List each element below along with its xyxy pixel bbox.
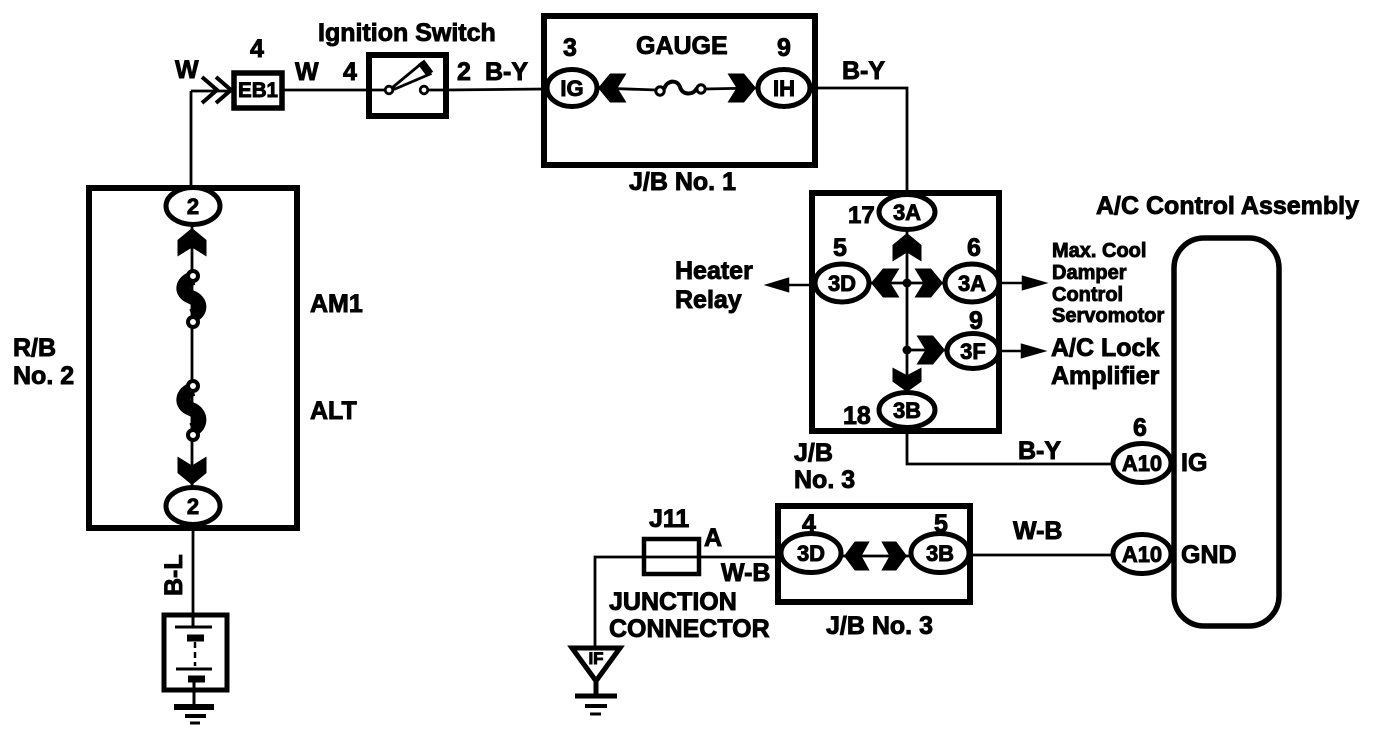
svg-text:Heater: Heater — [675, 257, 753, 285]
svg-text:B-Y: B-Y — [485, 58, 528, 86]
arrow to heater relay — [768, 279, 812, 291]
svg-text:R/B: R/B — [13, 334, 56, 362]
svg-text:9: 9 — [777, 34, 791, 62]
J/B No. 3 lower box — [778, 506, 970, 602]
ground IF triangle — [572, 648, 620, 681]
svg-text:IH: IH — [773, 76, 795, 101]
terminal A10 (IG) — [1113, 444, 1171, 483]
wire 3D to 3A row — [842, 282, 972, 285]
svg-text:B-L: B-L — [160, 554, 188, 596]
wire J11 to J/B No.3 — [699, 556, 778, 559]
svg-text:3: 3 — [563, 34, 577, 62]
svg-text:Servomotor: Servomotor — [1052, 305, 1164, 327]
arrow to Max Cool servomotor — [999, 277, 1044, 289]
wire 3B to A10 GND — [969, 554, 1113, 557]
arrow left to 3D — [871, 269, 900, 298]
svg-text:6: 6 — [1133, 414, 1147, 442]
fusible link ALT — [183, 381, 199, 440]
arrow up (below 2) — [178, 228, 207, 257]
svg-text:GND: GND — [1181, 541, 1237, 569]
svg-text:Relay: Relay — [675, 286, 742, 314]
wire inside gauge box — [598, 88, 757, 90]
svg-text:4: 4 — [250, 35, 264, 63]
switch contact left — [385, 86, 393, 94]
terminal 3B (lower) — [911, 534, 969, 573]
svg-text:Control: Control — [1052, 284, 1123, 306]
arrow right to 3B lower — [881, 542, 907, 571]
arrow up to 3A — [893, 233, 922, 262]
svg-text:W-B: W-B — [721, 559, 770, 587]
svg-text:Ignition Switch: Ignition Switch — [318, 19, 496, 47]
terminal 2 (top) — [166, 188, 220, 225]
svg-text:3B: 3B — [893, 398, 921, 423]
connector EB1 — [234, 73, 282, 108]
svg-text:Damper: Damper — [1052, 262, 1127, 284]
svg-text:IG: IG — [560, 76, 583, 101]
svg-text:EB1: EB1 — [238, 79, 278, 102]
ignition switch box — [369, 55, 446, 116]
svg-text:2: 2 — [187, 494, 199, 519]
wire 2 to battery — [192, 524, 195, 615]
svg-text:No. 2: No. 2 — [13, 362, 74, 390]
svg-text:IG: IG — [1181, 449, 1207, 477]
svg-text:18: 18 — [843, 402, 871, 430]
svg-text:J/B No. 1: J/B No. 1 — [629, 168, 736, 196]
svg-text:IF: IF — [588, 649, 603, 668]
svg-text:6: 6 — [967, 234, 981, 262]
svg-text:A/C Lock: A/C Lock — [1051, 334, 1159, 362]
vertical wire in middle box — [906, 230, 909, 392]
wire IH to J/B No.3 3A — [810, 88, 907, 196]
svg-text:Max. Cool: Max. Cool — [1052, 240, 1146, 262]
svg-text:A10: A10 — [1122, 451, 1162, 476]
svg-text:3D: 3D — [828, 271, 856, 296]
svg-text:Amplifier: Amplifier — [1051, 362, 1160, 390]
svg-text:No. 3: No. 3 — [794, 466, 855, 494]
svg-text:J/B: J/B — [794, 439, 833, 467]
terminal 3A (right) — [945, 264, 999, 302]
splice chevrons >> — [202, 77, 231, 103]
svg-text:2: 2 — [187, 194, 199, 219]
wire EB1 to Ignition Switch — [282, 89, 366, 92]
svg-text:3F: 3F — [960, 339, 986, 364]
terminal 3D — [815, 264, 869, 302]
arrow down to 3B — [893, 367, 922, 392]
svg-text:2: 2 — [457, 58, 471, 86]
wire 3B to A10 IG — [907, 427, 1113, 464]
svg-text:CONNECTOR: CONNECTOR — [609, 615, 770, 643]
svg-text:A10: A10 — [1122, 542, 1162, 567]
svg-text:3B: 3B — [926, 541, 954, 566]
wire inside switch box — [369, 89, 446, 92]
svg-text:A/C Control Assembly: A/C Control Assembly — [1096, 192, 1359, 220]
wire inside R/B box — [191, 224, 194, 490]
junction node (3F row) — [903, 346, 912, 355]
ground symbol (IF) — [575, 681, 617, 714]
svg-text:W-B: W-B — [1013, 517, 1062, 545]
J/B No. 3 middle box — [812, 193, 999, 431]
svg-text:4: 4 — [343, 58, 357, 86]
svg-text:W: W — [295, 58, 319, 86]
wire to 3F — [907, 349, 947, 352]
terminal 3B (bottom) — [879, 393, 935, 428]
svg-text:JUNCTION: JUNCTION — [609, 588, 737, 616]
svg-text:ALT: ALT — [310, 397, 357, 425]
svg-text:3A: 3A — [893, 200, 921, 225]
svg-text:GAUGE: GAUGE — [636, 32, 728, 60]
svg-text:5: 5 — [833, 234, 847, 262]
battery — [164, 615, 227, 706]
A/C control assembly body — [1174, 238, 1279, 626]
svg-text:A: A — [704, 524, 722, 552]
arrow left to 3D lower — [844, 542, 870, 571]
switch contact right — [420, 86, 428, 94]
terminal 3F — [947, 334, 999, 369]
wire 3D to 3B lower — [811, 555, 940, 558]
svg-text:J11: J11 — [649, 505, 689, 533]
svg-text:3D: 3D — [797, 541, 825, 566]
arrow right to 3A — [915, 269, 944, 298]
J11 junction connector — [644, 539, 699, 574]
fusible link AM1 — [183, 271, 199, 327]
arrow left (into IG) — [598, 74, 627, 103]
svg-text:3A: 3A — [958, 271, 986, 296]
svg-text:17: 17 — [848, 202, 875, 229]
svg-text:W: W — [175, 56, 199, 84]
terminal IH — [758, 70, 810, 107]
svg-text:B-Y: B-Y — [1018, 437, 1061, 465]
switch lever — [393, 63, 430, 89]
wire J11 to ground IF — [595, 557, 644, 646]
terminal 2 (bottom) — [166, 488, 220, 525]
terminal A10 (GND) — [1113, 535, 1171, 574]
svg-text:J/B No. 3: J/B No. 3 — [826, 612, 933, 640]
arrow right (into IH) — [728, 74, 757, 103]
svg-text:9: 9 — [969, 307, 983, 335]
terminal 3A (top) — [879, 195, 935, 230]
terminal IG — [547, 70, 597, 107]
J/B No.1 box (GAUGE) — [544, 16, 815, 165]
wire switch to GAUGE box — [446, 89, 545, 90]
arrow down (above 2) — [178, 457, 207, 486]
R/B No. 2 box — [89, 188, 297, 528]
wire W from node corner to EB1 — [191, 91, 232, 186]
terminal 3D (lower) — [781, 534, 841, 573]
arrow right to 3F — [917, 336, 946, 365]
svg-text:AM1: AM1 — [310, 290, 363, 318]
junction node (row 1) — [903, 279, 912, 288]
ground (battery) — [174, 707, 214, 723]
arrow to A/C lock amplifier — [998, 345, 1043, 357]
fuse GAUGE — [656, 82, 705, 96]
svg-text:B-Y: B-Y — [842, 57, 885, 85]
